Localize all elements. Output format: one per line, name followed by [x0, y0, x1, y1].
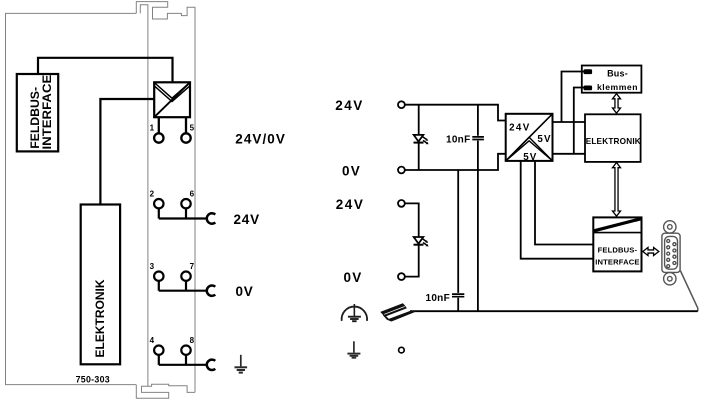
- svg-text:1: 1: [150, 124, 155, 133]
- svg-text:750-303: 750-303: [76, 374, 110, 384]
- clamp contact arc row 4/8: [207, 360, 216, 370]
- terminal circle 0V system: [398, 273, 405, 280]
- wire row 2/6 bus: [159, 217, 208, 219]
- svg-text:Bus-: Bus-: [607, 69, 628, 79]
- wire 24V rail: [405, 105, 506, 121]
- wire LED2 loop: [405, 203, 419, 276]
- wire row 3/7 bus: [159, 290, 208, 292]
- svg-text:24V/0V: 24V/0V: [235, 131, 286, 146]
- Bus-klemmen box: [582, 66, 642, 93]
- terminal 6: [181, 199, 190, 219]
- svg-text:5V: 5V: [537, 134, 551, 145]
- wire converter to feldbus upper: [535, 161, 593, 245]
- wire to bus-klemmen pad 2: [574, 88, 584, 154]
- capacitor C2 plates: [452, 294, 464, 297]
- svg-text:7: 7: [190, 262, 195, 271]
- svg-text:0V: 0V: [344, 270, 363, 285]
- capacitor C1 plates: [472, 137, 484, 140]
- terminal 1: [154, 117, 163, 143]
- terminal 3: [154, 272, 163, 291]
- wire D-sub shield to ground line: [680, 271, 698, 312]
- terminal 7: [181, 272, 190, 291]
- svg-text:8: 8: [190, 336, 195, 345]
- wire feldbus-interface to converter: [38, 58, 173, 83]
- svg-text:24V: 24V: [234, 212, 260, 227]
- DIN rail contact symbol: [380, 303, 416, 321]
- D-sub pins: [667, 240, 676, 268]
- terminal circle 24V system: [398, 200, 405, 207]
- D-sub connector: [662, 221, 680, 285]
- double arrow bus-klemmen/elektronik: [613, 94, 621, 114]
- svg-text:INTERFACE: INTERFACE: [40, 75, 53, 150]
- dc-dc converter (module): [154, 82, 190, 117]
- svg-text:INTERFACE: INTERFACE: [595, 257, 639, 266]
- FELDBUS-INTERFACE box (schematic): [593, 217, 641, 271]
- terminal circle 24V: [398, 101, 405, 108]
- FELDBUS-INTERFACE box (module): [17, 74, 58, 151]
- svg-text:24V: 24V: [335, 98, 364, 113]
- shield earth symbol: [342, 304, 367, 321]
- clamp contact arc row 2/6: [207, 213, 216, 223]
- ELEKTRONIK box (module): [81, 205, 120, 365]
- terminal 4: [154, 346, 163, 365]
- svg-text:24V: 24V: [509, 122, 531, 133]
- wire converter 5V mid output: [553, 153, 586, 155]
- double arrow feldbus/D-sub: [643, 248, 659, 256]
- capacitor C1 branch wire: [477, 105, 479, 312]
- ground bus line: [410, 310, 698, 312]
- svg-text:3: 3: [150, 262, 155, 271]
- wire row 4/8 bus: [159, 364, 208, 366]
- capacitor C2 branch wire: [457, 170, 459, 311]
- module outline left housing: [6, 2, 196, 399]
- bus contact pad 1: [584, 69, 593, 74]
- LED D1: [414, 135, 429, 144]
- svg-text:24V: 24V: [336, 197, 365, 212]
- svg-text:5: 5: [190, 124, 195, 133]
- terminal 2: [154, 199, 163, 219]
- terminal circle 0V: [398, 167, 405, 174]
- svg-text:klemmen: klemmen: [597, 82, 638, 92]
- wire LED1 branch: [418, 105, 420, 170]
- svg-text:4: 4: [150, 336, 155, 345]
- svg-text:2: 2: [150, 190, 155, 199]
- wire converter to feldbus lower: [521, 161, 594, 259]
- wire to bus-klemmen pad 1: [562, 72, 584, 123]
- wire converter to elektronik: [553, 121, 586, 123]
- svg-text:ELEKTRONIK: ELEKTRONIK: [586, 137, 641, 146]
- svg-text:0V: 0V: [236, 284, 254, 299]
- terminal circle shield: [399, 347, 405, 353]
- LED D2: [414, 237, 429, 246]
- dc-dc converter 24V/5V: [506, 114, 553, 161]
- double arrow elektronik/feldbus-interface: [613, 163, 621, 217]
- ELEKTRONIK box: [585, 114, 641, 162]
- svg-text:6: 6: [190, 190, 195, 199]
- terminal 5: [181, 117, 190, 143]
- clamp contact arc row 3/7: [207, 286, 216, 296]
- svg-text:0V: 0V: [342, 163, 361, 178]
- bus contact pad 2: [584, 86, 593, 91]
- ground symbol row 4/8: [235, 355, 248, 373]
- svg-text:ELEKTRONIK: ELEKTRONIK: [93, 279, 107, 357]
- svg-text:FELDBUS-: FELDBUS-: [598, 245, 638, 254]
- svg-text:10nF: 10nF: [446, 134, 471, 145]
- wire elektronik to converter: [100, 99, 154, 205]
- earth symbol bottom: [347, 341, 360, 357]
- terminal 8: [181, 346, 190, 365]
- svg-text:10nF: 10nF: [425, 293, 450, 304]
- wire 0V rail: [405, 154, 506, 170]
